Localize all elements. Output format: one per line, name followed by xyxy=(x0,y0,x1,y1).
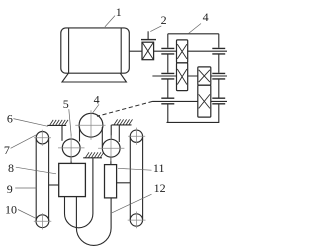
gear Z4 on shaft III (column 2 bottom) xyxy=(198,85,211,117)
svg-text:5: 5 xyxy=(63,97,69,111)
bearing caps shaft II right xyxy=(212,73,225,79)
gear Z2 on shaft II (column 1 bottom) xyxy=(177,63,188,91)
motor M1 base xyxy=(62,73,126,82)
wire: motor shaft to coupling xyxy=(129,50,142,52)
rope: sheave right to right pulley xyxy=(101,127,103,147)
svg-text:7: 7 xyxy=(4,143,10,157)
leader 5 xyxy=(69,109,71,135)
support 6 hatching right xyxy=(112,124,132,126)
coupling 2 cross xyxy=(142,43,153,60)
crosshair sheave 4 xyxy=(75,110,105,140)
gear Z1 on shaft I (column 1 top) xyxy=(177,40,188,63)
svg-text:9: 9 xyxy=(7,182,13,196)
leader 4 sheave xyxy=(92,104,99,113)
shaft I right segment xyxy=(188,50,227,52)
dashed link: gearbox output shaft III to sheave xyxy=(97,101,153,116)
guide pulley 5 right xyxy=(102,139,120,157)
gearbox housing top line xyxy=(168,33,219,35)
svg-text:10: 10 xyxy=(5,202,17,216)
crosshair pulley 5 right xyxy=(98,135,124,161)
svg-text:11: 11 xyxy=(153,161,165,175)
bearing caps shaft I right xyxy=(212,48,225,54)
rope: left pulley down to car box xyxy=(70,157,72,164)
bearing caps shaft I left xyxy=(161,48,174,54)
governor pulley 7 xyxy=(36,132,48,144)
counterweight 11 xyxy=(105,165,117,198)
crosshair governor pulley 7 xyxy=(34,130,51,146)
leader 4 gearbox xyxy=(189,24,202,34)
car box 8 xyxy=(59,163,86,196)
link: counterweight to right loop xyxy=(117,182,131,184)
support hatching center xyxy=(83,157,102,159)
thin crosshair centerlines xyxy=(34,110,146,229)
crosshair right loop top pulley xyxy=(128,128,145,145)
leader 11 xyxy=(118,168,152,170)
gearbox housing left wall xyxy=(167,34,169,123)
gearbox housing right wall xyxy=(218,34,220,123)
bearing caps shaft II left xyxy=(161,73,174,79)
brake anchor stem above coupling xyxy=(147,31,149,39)
crosshair right loop bottom pulley xyxy=(128,212,146,229)
leader 7 xyxy=(11,135,37,149)
svg-text:8: 8 xyxy=(8,161,14,175)
bearing caps shaft III right xyxy=(212,98,225,104)
gearbox housing bottom line xyxy=(167,121,220,123)
leader 8 xyxy=(16,167,56,174)
shaft II segments xyxy=(152,75,227,77)
leader 6 xyxy=(13,119,47,127)
support 6 hatching left xyxy=(47,124,66,126)
svg-text:12: 12 xyxy=(154,181,166,195)
right loop side lines xyxy=(130,136,142,220)
svg-text:1: 1 xyxy=(116,5,122,19)
post: left support to left pulley xyxy=(61,125,63,140)
leader 10 xyxy=(18,210,36,219)
crosshair tension pulley 10 xyxy=(34,213,52,229)
motor M1 left end-cap line xyxy=(68,28,70,73)
rope: sheave left to left pulley xyxy=(79,127,81,142)
right loop bottom pulley xyxy=(130,214,142,226)
leader 2 xyxy=(150,26,161,32)
brake anchor bar above coupling xyxy=(141,39,156,41)
leader 1 xyxy=(105,16,115,27)
svg-text:4: 4 xyxy=(94,93,100,107)
tension pulley 10 xyxy=(36,215,49,228)
bearing caps shaft III left xyxy=(161,98,174,104)
leader 12 xyxy=(112,194,152,213)
wire: coupling to gearbox shaft I xyxy=(154,50,177,52)
shaft III segments xyxy=(153,100,228,102)
traveling cable: car bottom U up to center support xyxy=(65,158,93,228)
link: governor rope to car xyxy=(49,184,59,186)
leader lines xyxy=(11,16,201,219)
motor M1 right end-cap line xyxy=(120,28,122,73)
gear Z3 on shaft II (column 2 top) xyxy=(198,67,211,85)
motor M1 body xyxy=(61,28,130,73)
posts: right support to right pulley xyxy=(111,125,119,142)
guide pulley 5 left xyxy=(62,139,80,157)
svg-text:2: 2 xyxy=(161,13,167,27)
svg-text:4: 4 xyxy=(203,10,209,24)
compensating rope 12: big U car to counterweight xyxy=(76,197,111,246)
svg-text:6: 6 xyxy=(7,111,13,125)
governor rope loop right side xyxy=(48,138,50,221)
leader 9 xyxy=(15,187,36,189)
coupling 2 box xyxy=(142,42,154,60)
crosshair pulley 5 left xyxy=(58,135,85,162)
traction sheave 4 xyxy=(79,113,103,137)
governor rope loop left side xyxy=(35,138,37,221)
right loop top pulley xyxy=(130,130,142,142)
rope: right pulley down to counterweight xyxy=(110,157,112,164)
